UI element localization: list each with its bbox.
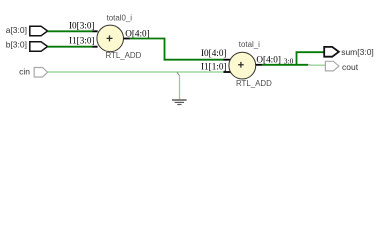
svg-text:cin: cin: [19, 66, 30, 76]
plus sign U2: [238, 62, 244, 68]
wire O1 horizontal: [130, 38, 166, 40]
pin stub O total0_i: [124, 38, 131, 40]
svg-text:RTL_ADD: RTL_ADD: [106, 51, 142, 60]
wire ground branch vertical: [179, 75, 181, 99]
svg-text:sum[3:0]: sum[3:0]: [341, 47, 374, 57]
pin stub I1 total_i: [224, 71, 231, 73]
svg-text:O[4:0]: O[4:0]: [125, 29, 150, 39]
svg-text:I0[3:0]: I0[3:0]: [69, 21, 95, 31]
wire O1 to I0 total_i: [164, 59, 224, 61]
output port sum[3:0]: [324, 47, 339, 57]
wire cout net: [311, 64, 326, 66]
wire sum branch vertical: [296, 52, 298, 65]
svg-text:total0_i: total0_i: [107, 13, 133, 22]
input port a[3:0]: [30, 26, 48, 36]
wire cin net: [48, 71, 224, 73]
input port cin: [34, 68, 47, 78]
pin stub O total_i: [256, 64, 262, 66]
svg-text:O[4:0]: O[4:0]: [256, 55, 281, 65]
input port b[3:0]: [30, 42, 48, 52]
svg-text:I0[4:0]: I0[4:0]: [201, 48, 227, 58]
wire O2 bus: [262, 64, 308, 66]
pin stub I0 total0_i: [93, 30, 98, 32]
wire sum branch horizontal: [296, 51, 325, 53]
svg-text:total_i: total_i: [239, 40, 260, 49]
svg-text:cout: cout: [342, 62, 359, 72]
wire O1 vertical: [164, 39, 166, 60]
svg-text:b[3:0]: b[3:0]: [6, 40, 27, 50]
adder U1 total0_i circle: [97, 25, 124, 52]
wire a to I0: [48, 30, 93, 32]
net connector gray: [308, 64, 311, 66]
svg-text:RTL_ADD: RTL_ADD: [236, 79, 272, 88]
ground symbol: [172, 100, 187, 105]
plus sign U1: [107, 35, 113, 41]
svg-text:I1[3:0]: I1[3:0]: [69, 36, 95, 46]
junction diagonal to ground branch: [177, 72, 179, 75]
adder U2 total_i circle: [229, 52, 256, 79]
wire b to I1: [48, 46, 93, 48]
svg-text:a[3:0]: a[3:0]: [6, 25, 27, 35]
svg-text:I1[1:0]: I1[1:0]: [201, 62, 227, 72]
output port cout: [325, 61, 339, 71]
pin stub I0 total_i: [224, 59, 231, 61]
pin stub I1 total0_i: [93, 46, 98, 48]
